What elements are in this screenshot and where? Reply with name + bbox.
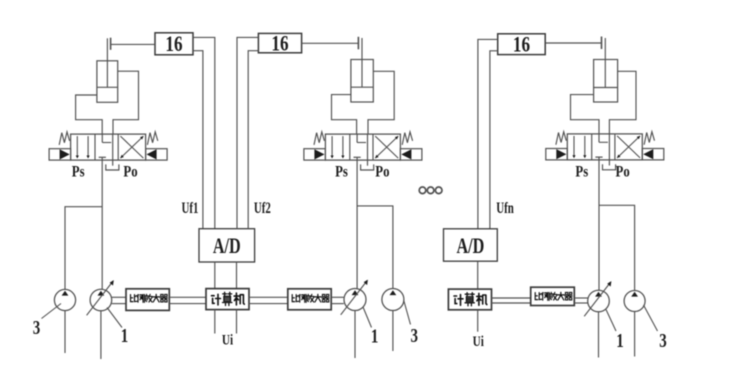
svg-text:Uf2: Uf2 [254, 199, 271, 217]
svg-text:A/D: A/D [456, 235, 484, 259]
svg-text:A/D: A/D [213, 235, 241, 259]
svg-text:1: 1 [371, 324, 378, 347]
svg-text:Ps: Ps [335, 163, 348, 181]
svg-text:Po: Po [615, 163, 629, 181]
svg-text:1: 1 [121, 324, 128, 347]
svg-text:Ps: Ps [575, 163, 588, 181]
svg-text:3: 3 [410, 324, 418, 347]
svg-text:Ui: Ui [473, 332, 485, 349]
svg-text:Uf1: Uf1 [182, 199, 199, 217]
svg-text:1: 1 [616, 329, 623, 352]
svg-text:Po: Po [123, 163, 137, 181]
svg-text:16: 16 [165, 32, 182, 57]
svg-text:16: 16 [513, 33, 530, 58]
svg-text:Ui: Ui [222, 331, 234, 348]
svg-text:3: 3 [33, 316, 41, 339]
svg-text:3: 3 [659, 329, 667, 352]
svg-text:16: 16 [271, 32, 288, 57]
svg-text:Po: Po [375, 163, 389, 181]
svg-text:Ps: Ps [72, 163, 85, 181]
svg-text:Ufn: Ufn [496, 199, 514, 217]
